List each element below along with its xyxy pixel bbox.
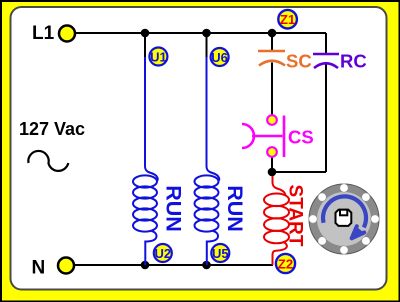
wire: RC branch upper stub xyxy=(325,33,327,53)
motor bolt right xyxy=(371,215,379,223)
motor bolt bottom-right xyxy=(362,237,370,245)
node junction bottom run2 xyxy=(202,261,211,270)
node label U1 xyxy=(149,48,167,66)
start winding lead (red) xyxy=(264,176,289,265)
AC source sine symbol xyxy=(28,151,68,171)
svg-text:CS: CS xyxy=(288,127,314,148)
motor bolt top xyxy=(340,184,348,192)
svg-text:U6: U6 xyxy=(211,50,228,65)
svg-text:N: N xyxy=(32,258,46,279)
motor bolt top-left xyxy=(318,193,326,201)
svg-text:START: START xyxy=(285,185,306,247)
motor shaft keyway xyxy=(340,210,347,216)
node label U6 xyxy=(211,48,229,66)
svg-text:L1: L1 xyxy=(32,23,55,44)
motor shaft nut xyxy=(336,210,352,226)
capacitor SC top plate xyxy=(258,50,285,53)
run winding 1 coil xyxy=(133,175,157,187)
svg-text:U1: U1 xyxy=(150,49,167,64)
terminal L1 xyxy=(59,26,75,42)
wire: SC branch upper stub xyxy=(271,33,273,50)
wire: bottom bus N to START xyxy=(74,264,273,266)
capacitor SC curved plate xyxy=(259,61,285,66)
motor rotor body xyxy=(309,184,379,254)
svg-text:RC: RC xyxy=(340,51,367,72)
wire: top bus L1 to right corner xyxy=(75,32,326,34)
svg-text:Z2: Z2 xyxy=(278,256,293,271)
motor rotor inner disc xyxy=(317,192,371,246)
centrifugal switch CS contact bar xyxy=(283,116,286,158)
motor bolt top-right xyxy=(362,193,370,201)
motor bolt left xyxy=(309,215,317,223)
wire: SC to CS top terminal xyxy=(271,63,273,116)
node junction top run1 xyxy=(141,29,150,38)
CS bottom contact terminal xyxy=(267,147,277,157)
rotation arrow xyxy=(323,196,366,227)
wire: CS bottom terminal to node xyxy=(271,157,273,173)
motor bolt bottom xyxy=(340,246,348,254)
svg-text:127 Vac: 127 Vac xyxy=(19,119,85,139)
centrifugal switch CS actuator arc xyxy=(242,124,254,148)
run winding 2 coil xyxy=(195,175,219,187)
svg-text:U5: U5 xyxy=(212,246,229,261)
terminal N xyxy=(58,258,74,274)
capacitor RC top plate xyxy=(313,53,339,56)
motor bolt bottom-left xyxy=(318,237,326,245)
svg-text:Z1: Z1 xyxy=(280,12,295,27)
node label Z1 xyxy=(278,10,297,29)
wire: run1 winding lead (blue) xyxy=(133,57,158,265)
node junction bottom run1 xyxy=(141,261,150,270)
node label U5 xyxy=(211,244,229,262)
node junction top SC xyxy=(268,29,277,38)
start winding coil xyxy=(264,194,289,207)
capacitor RC curved plate xyxy=(314,63,338,68)
node junction CS-RC-START xyxy=(268,168,277,177)
svg-text:SC: SC xyxy=(286,51,312,72)
wire: run2 top stub xyxy=(206,33,208,58)
svg-text:U2: U2 xyxy=(154,246,171,261)
wire: run2 winding lead (blue) xyxy=(195,57,220,265)
node label Z2 xyxy=(276,254,295,273)
wire: node to RC branch bottom xyxy=(272,171,326,173)
centrifugal switch CS actuator arm xyxy=(252,135,283,138)
node junction top run2 xyxy=(202,29,211,38)
wire: RC branch lower run xyxy=(325,65,327,173)
wire: run1 top stub xyxy=(144,33,146,58)
svg-text:RUN: RUN xyxy=(223,185,247,232)
node label U2 xyxy=(154,244,172,262)
CS top contact terminal xyxy=(267,115,277,125)
svg-text:RUN: RUN xyxy=(162,185,186,232)
